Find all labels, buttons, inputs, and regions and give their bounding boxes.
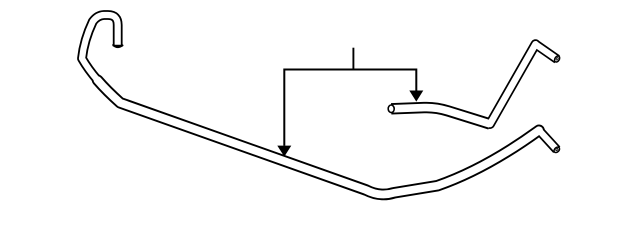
hose H1 long hose with hook, black outline (82, 15, 557, 194)
label 1 tick (352, 48, 354, 70)
hose H1 hook end cap (113, 45, 122, 47)
hose H2 open end ellipse top right (553, 55, 560, 63)
hose H2 open end ellipse left (388, 105, 395, 113)
hose H1 white core (82, 15, 557, 194)
hose H1 open end ellipse bottom right (553, 146, 561, 154)
callout leader bracket (284, 70, 416, 146)
arrow to hose H1 (277, 146, 291, 157)
hose H2 white core (391, 43, 557, 124)
arrow to hose H2 (409, 91, 423, 102)
hose H2 short upper-right hose, black outline (391, 44, 557, 124)
